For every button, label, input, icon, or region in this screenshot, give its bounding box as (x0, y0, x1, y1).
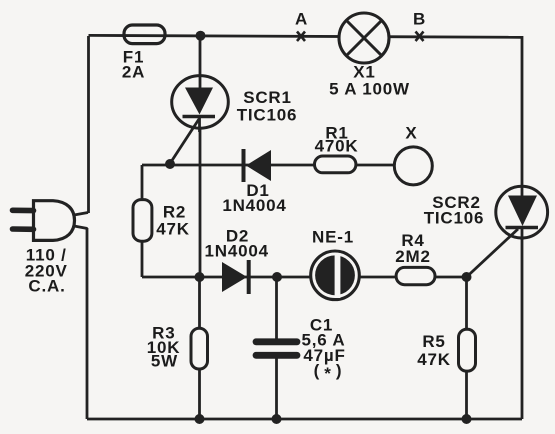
svg-text:SCR1: SCR1 (243, 88, 292, 107)
node junction dot gate2 (462, 272, 472, 282)
lamp X1 (339, 13, 389, 63)
node junction dot bottom R3 (195, 414, 205, 424)
svg-text:C.A.: C.A. (28, 277, 65, 296)
resistor R1 (315, 156, 356, 173)
diode D1 (244, 149, 272, 182)
neon lamp NE-1 (311, 251, 360, 300)
thyristor SCR1 (172, 75, 229, 133)
svg-text:TIC106: TIC106 (237, 106, 298, 125)
svg-text:X: X (405, 124, 417, 143)
wire bottom horizontal (87, 418, 522, 421)
wire C1 vertical lower lead (275, 359, 278, 420)
svg-text:5W: 5W (151, 352, 178, 371)
wire C1 vertical upper lead (275, 277, 278, 339)
plug 110/220V (13, 201, 75, 241)
resistor R2 (133, 200, 152, 242)
svg-text:2A: 2A (122, 63, 145, 82)
wire left border lower (86, 228, 89, 419)
svg-text:47K: 47K (156, 220, 190, 239)
capacitor C1 (256, 342, 297, 356)
svg-text:B: B (413, 10, 426, 29)
node junction dot bottom C1 (272, 414, 282, 424)
svg-text:A: A (295, 10, 308, 29)
wire plug upper stub (74, 213, 88, 216)
resistor R5 (459, 329, 476, 371)
svg-text:R5: R5 (422, 332, 445, 351)
node junction dot C1 top (272, 272, 282, 282)
resistor R4 (396, 267, 435, 284)
node X terminal circle (394, 147, 432, 185)
node junction dot D2 left (195, 272, 205, 282)
svg-text:TIC106: TIC106 (424, 209, 485, 228)
wire D2 horizontal run (142, 276, 467, 279)
wire R2 vertical branch (141, 165, 144, 277)
svg-text:2M2: 2M2 (395, 247, 430, 266)
svg-text:1N4004: 1N4004 (222, 196, 286, 215)
wire right border (521, 36, 524, 419)
wire SCR1 gate diagonal (170, 119, 199, 164)
diode D2 (222, 260, 249, 294)
node B terminal x-mark (416, 32, 424, 42)
node junction dot at fuse output (196, 31, 206, 41)
svg-text:47K: 47K (417, 350, 451, 369)
svg-text:5 A 100W: 5 A 100W (329, 80, 410, 99)
node junction dot bottom R5 (462, 414, 472, 424)
wire R5 vertical branch (465, 277, 468, 419)
node junction dot gate1 (165, 159, 175, 169)
svg-text:NE-1: NE-1 (312, 228, 354, 247)
fuse F1 (124, 25, 165, 44)
svg-text:1N4004: 1N4004 (205, 242, 269, 261)
thyristor SCR2 (496, 185, 548, 240)
wire plug lower stub (74, 226, 88, 229)
node A terminal x-mark (297, 32, 305, 42)
svg-text:470K: 470K (315, 137, 359, 156)
wire R3 vertical branch (198, 277, 201, 419)
svg-text:( * ): ( * ) (314, 361, 343, 383)
wire gate1 horizontal to D1 and R1 (142, 164, 394, 167)
wire SCR2 gate diagonal (467, 229, 519, 277)
wire top horizontal mains (89, 35, 523, 37)
wire SCR1 vertical branch (199, 36, 202, 277)
resistor R3 (191, 328, 208, 369)
wire left border upper (87, 36, 90, 213)
